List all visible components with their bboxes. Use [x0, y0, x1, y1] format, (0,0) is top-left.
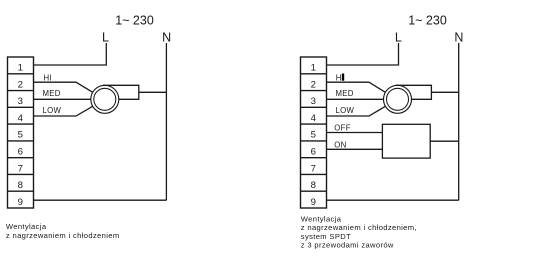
svg-text:L: L — [395, 30, 402, 44]
svg-text:L: L — [102, 30, 109, 44]
terminal block TB2 (right) — [301, 57, 327, 208]
wire LOW: terminal 4 to motor (left) — [34, 106, 93, 116]
TB2 pin numbers 1-9 — [311, 63, 317, 208]
svg-text:z nagrzewaniem i chłodzeniem,: z nagrzewaniem i chłodzeniem, — [301, 223, 417, 232]
svg-text:OFF: OFF — [334, 123, 351, 132]
svg-text:2: 2 — [311, 79, 316, 90]
svg-text:5: 5 — [18, 130, 23, 141]
caption (left) — [6, 222, 120, 240]
wire HI: terminal 2 to motor (right) — [327, 82, 386, 92]
wire HI: terminal 2 to motor (left) — [34, 82, 93, 92]
svg-text:N: N — [162, 30, 171, 44]
svg-text:Wentylacja: Wentylacja — [6, 222, 47, 231]
svg-text:9: 9 — [18, 197, 23, 208]
wire: N bus (right) — [458, 43, 460, 200]
wire: valve to N bus (right) — [430, 140, 459, 142]
valve actuator box (right) — [382, 124, 430, 158]
svg-text:1~ 230: 1~ 230 — [408, 14, 447, 28]
caption (right) — [301, 215, 417, 250]
wire: N bus (left) — [165, 43, 167, 200]
svg-text:1: 1 — [18, 63, 23, 74]
svg-text:4: 4 — [311, 113, 317, 124]
svg-text:LOW: LOW — [336, 106, 355, 115]
wire: terminal 9 to N (left) — [34, 199, 167, 201]
svg-text:MED: MED — [336, 89, 354, 98]
svg-text:4: 4 — [18, 113, 24, 124]
wire ON: terminal 6 to valve (right) — [327, 148, 383, 150]
svg-text:1~ 230: 1~ 230 — [115, 14, 154, 28]
wire: motor M2 to N bus (right) — [431, 91, 458, 93]
svg-text:7: 7 — [311, 163, 316, 174]
svg-text:Wentylacja: Wentylacja — [301, 215, 342, 224]
svg-text:5: 5 — [311, 130, 316, 141]
svg-text:1: 1 — [311, 63, 316, 74]
TB1 pin numbers 1-9 — [18, 63, 24, 208]
svg-text:MED: MED — [43, 89, 61, 98]
fan motor M2 (right): double circle with terminal box — [384, 85, 432, 113]
fan motor M1 (left): double circle with terminal box — [91, 85, 139, 113]
svg-text:6: 6 — [311, 147, 316, 158]
svg-text:3: 3 — [311, 96, 316, 107]
wire: terminal 9 to N (right) — [327, 199, 459, 201]
terminal block TB1 (left) — [8, 57, 34, 208]
svg-text:8: 8 — [18, 180, 23, 191]
svg-text:8: 8 — [311, 180, 316, 191]
svg-text:HI: HI — [44, 74, 52, 83]
wire: terminal 1 to L (right) — [327, 43, 399, 65]
wire OFF: terminal 5 to valve (right) — [327, 132, 383, 134]
svg-text:N: N — [454, 30, 463, 44]
svg-text:3: 3 — [18, 96, 23, 107]
svg-text:6: 6 — [18, 147, 23, 158]
svg-text:H: H — [336, 74, 342, 83]
svg-text:9: 9 — [311, 197, 316, 208]
svg-text:7: 7 — [18, 163, 23, 174]
wire MED: terminal 3 to motor (right) — [327, 98, 384, 100]
svg-text:LOW: LOW — [43, 106, 62, 115]
svg-text:system SPDT: system SPDT — [301, 232, 351, 241]
svg-text:z 3 przewodami zaworów: z 3 przewodami zaworów — [301, 241, 394, 250]
wire: motor M1 to N bus (left) — [139, 91, 167, 93]
svg-text:2: 2 — [18, 79, 23, 90]
wire: terminal 1 to L (left) — [34, 43, 107, 65]
svg-text:z nagrzewaniem i chłodzeniem: z nagrzewaniem i chłodzeniem — [6, 231, 120, 240]
svg-text:ON: ON — [334, 140, 346, 149]
wire LOW: terminal 4 to motor (right) — [327, 106, 386, 116]
wire MED: terminal 3 to motor (left) — [34, 98, 92, 100]
